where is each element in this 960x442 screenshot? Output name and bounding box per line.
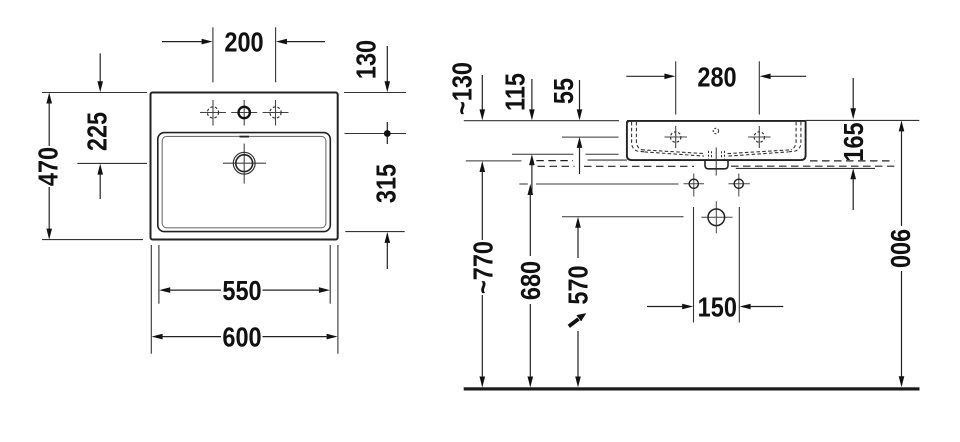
bowl left wall (dashed) bbox=[632, 122, 645, 152]
dim 55 top arrow bbox=[577, 80, 583, 120]
dim 200 right arrow bbox=[276, 39, 325, 45]
bowl bottom lower dashed line bbox=[645, 152, 789, 156]
basin outer rect bbox=[151, 93, 338, 240]
drain bbox=[223, 144, 266, 184]
dashed level line right long bbox=[731, 165, 894, 167]
dim 165 top arrow bbox=[850, 78, 856, 119]
front faucet hole left bbox=[665, 126, 688, 148]
dim 315 bottom arrow bbox=[385, 232, 391, 269]
wall line top left bbox=[464, 120, 619, 122]
dim 200 ext line left bbox=[212, 27, 214, 82]
dim 280 ext line right bbox=[758, 61, 760, 114]
dim 115 bottom arrow bbox=[529, 154, 535, 193]
drain flange dashed verticals bbox=[709, 151, 725, 159]
dim 280 ext line left bbox=[675, 61, 677, 114]
dim 470 ext line top bbox=[42, 92, 147, 94]
dim 165 bottom arrow bbox=[850, 168, 856, 210]
dim 150 right arrow bbox=[740, 304, 784, 310]
solid level segment near basin (left) bbox=[588, 159, 627, 161]
bolt hole level ref line (680) bbox=[519, 183, 678, 185]
faucet hole center (solid) bbox=[231, 100, 257, 126]
dim 470 ext line bottom bbox=[42, 239, 143, 241]
dim 550 ext line right bbox=[329, 245, 331, 304]
faucet hole left (dashed) bbox=[200, 100, 226, 126]
bowl inner rim bbox=[162, 136, 326, 227]
dim ~130 top arrow bbox=[480, 75, 486, 120]
dim 130 shaft+arrow (top right of plan) bbox=[385, 46, 391, 92]
supply pipe circle bbox=[701, 201, 732, 233]
dim 150 ext line right bbox=[738, 207, 740, 323]
dim 225 top arrow bbox=[97, 53, 103, 92]
dim 550 ext line left bbox=[158, 245, 160, 304]
drain tailpiece box bbox=[705, 159, 728, 168]
svg-text:55: 55 bbox=[549, 78, 579, 104]
bowl top center tick bbox=[240, 136, 250, 138]
dim 150 ext line left bbox=[693, 207, 695, 323]
svg-text:165: 165 bbox=[839, 122, 869, 161]
svg-text:680: 680 bbox=[516, 261, 546, 300]
dim 900 line with arrows bbox=[899, 120, 905, 387]
dim 225 bottom arrow bbox=[97, 164, 103, 199]
dim 550 left arrow bbox=[159, 287, 221, 293]
dim 200 left arrow bbox=[162, 39, 213, 45]
svg-text:570: 570 bbox=[563, 265, 593, 304]
pipe level ref line (570) bbox=[562, 216, 684, 218]
mounting bolt hole right bbox=[729, 174, 750, 197]
dim 150 left arrow bbox=[647, 304, 693, 310]
bowl right wall (dashed) bbox=[788, 122, 801, 152]
dim 115 top arrow bbox=[529, 79, 535, 120]
overflow hole (dashed circle) bbox=[713, 128, 718, 133]
dashed level line right short bbox=[810, 160, 894, 162]
drain center line bbox=[715, 148, 717, 176]
svg-text:~130: ~130 bbox=[447, 62, 477, 115]
front faucet hole right bbox=[748, 126, 771, 148]
svg-text:550: 550 bbox=[222, 276, 261, 306]
svg-text:900: 900 bbox=[885, 229, 915, 268]
dim 600 right arrow bbox=[263, 334, 338, 340]
small NE pointer arrow near 570 bbox=[569, 313, 587, 326]
mounting bolt hole left bbox=[684, 174, 705, 197]
svg-text:115: 115 bbox=[500, 73, 530, 111]
dim 55 bottom arrow bbox=[577, 137, 583, 174]
bowl outer rim bbox=[158, 133, 330, 232]
shared dim dot bbox=[384, 122, 391, 144]
dim 200 ext line right bbox=[275, 27, 277, 82]
ext line at drain center (left) bbox=[77, 162, 147, 164]
svg-text:470: 470 bbox=[34, 147, 64, 186]
bowl bottom upper dashed line bbox=[642, 150, 792, 154]
dim 600 left arrow bbox=[152, 334, 221, 340]
basin front outline bbox=[627, 121, 806, 160]
dim 550 right arrow bbox=[263, 287, 330, 293]
faucet hole right (dashed) bbox=[263, 100, 289, 126]
dim 600 ext line right bbox=[337, 245, 339, 354]
dim 600 ext line left bbox=[150, 245, 152, 354]
dim 680 line with arrows bbox=[528, 184, 534, 388]
dim ~770 line with arrows (shared with ~130 bottom) bbox=[480, 161, 486, 388]
faucet hole level ref line bbox=[562, 136, 619, 138]
dim 280 right arrow bbox=[760, 74, 807, 80]
dim 280 left arrow bbox=[626, 74, 675, 80]
dashed level segment at basin bottom level (left) bbox=[536, 160, 573, 162]
ext line at bowl top edge (right) bbox=[345, 133, 407, 135]
solid level line right bbox=[736, 167, 875, 169]
dim 570 line with arrows bbox=[575, 217, 581, 388]
wall line top right bbox=[806, 119, 920, 121]
svg-text:130: 130 bbox=[352, 40, 382, 79]
bowl left wall inner (dashed) bbox=[636, 122, 641, 150]
~130 level ref line bbox=[466, 160, 522, 162]
dashed level line left of trap bbox=[538, 165, 695, 167]
svg-text:200: 200 bbox=[224, 28, 263, 58]
dim 470 line with arrows bbox=[46, 93, 52, 240]
svg-text:225: 225 bbox=[83, 112, 113, 151]
svg-text:280: 280 bbox=[697, 62, 736, 92]
floor line bbox=[464, 387, 920, 390]
bowl right wall inner (dashed) bbox=[791, 122, 796, 150]
svg-text:600: 600 bbox=[222, 323, 261, 353]
rim level ref line bbox=[512, 153, 619, 155]
svg-text:150: 150 bbox=[698, 293, 737, 323]
dim 130 ext line (basin top edge) bbox=[344, 92, 406, 94]
svg-text:315: 315 bbox=[372, 164, 402, 203]
svg-text:~770: ~770 bbox=[469, 241, 499, 294]
ext line at bowl bottom edge (right) bbox=[345, 231, 404, 233]
